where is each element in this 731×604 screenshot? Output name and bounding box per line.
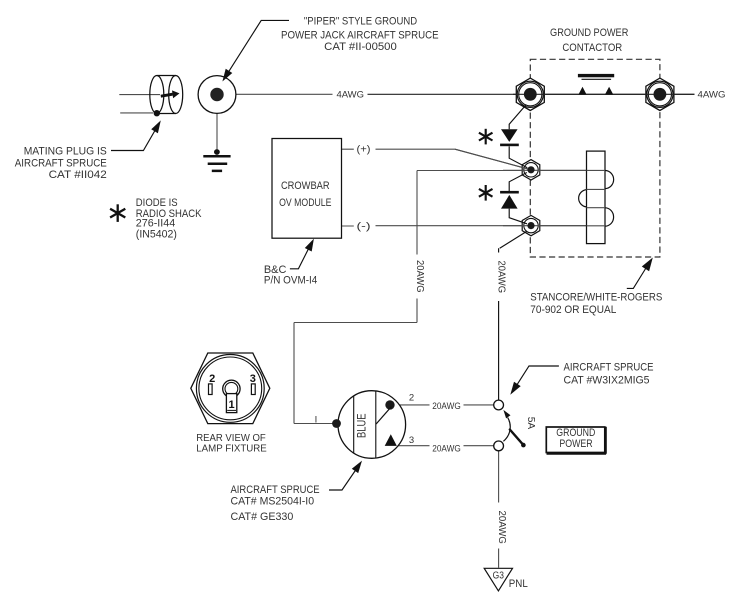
svg-text:CAT# GE330: CAT# GE330: [231, 511, 294, 523]
svg-text:G3: G3: [493, 571, 505, 582]
svg-text:20AWG: 20AWG: [496, 261, 507, 294]
svg-text:AIRCRAFT SPRUCE: AIRCRAFT SPRUCE: [15, 158, 107, 170]
svg-text:(+): (+): [357, 145, 371, 156]
svg-text:20AWG: 20AWG: [414, 260, 425, 293]
svg-text:2: 2: [409, 392, 414, 403]
svg-text:CROWBAR: CROWBAR: [281, 180, 330, 192]
svg-text:(IN5402): (IN5402): [136, 229, 177, 241]
svg-text:AIRCRAFT SPRUCE: AIRCRAFT SPRUCE: [564, 361, 654, 373]
svg-text:PNL: PNL: [509, 578, 528, 590]
svg-text:P/N OVM-I4: P/N OVM-I4: [264, 274, 317, 286]
svg-text:REAR VIEW OF: REAR VIEW OF: [196, 433, 266, 444]
svg-text:POWER: POWER: [559, 438, 592, 450]
svg-text:5A: 5A: [525, 417, 536, 430]
svg-text:STANCORE/WHITE-ROGERS: STANCORE/WHITE-ROGERS: [530, 291, 662, 303]
svg-text:OV MODULE: OV MODULE: [279, 197, 331, 209]
svg-text:4AWG: 4AWG: [336, 90, 364, 101]
svg-text:LAMP FIXTURE: LAMP FIXTURE: [196, 444, 267, 455]
svg-text:BLUE: BLUE: [357, 413, 369, 438]
svg-text:CONTACTOR: CONTACTOR: [562, 42, 622, 54]
svg-text:AIRCRAFT SPRUCE: AIRCRAFT SPRUCE: [231, 484, 320, 496]
svg-text:GROUND: GROUND: [556, 427, 595, 439]
svg-text:"PIPER" STYLE GROUND: "PIPER" STYLE GROUND: [304, 16, 417, 28]
svg-text:70-902 OR EQUAL: 70-902 OR EQUAL: [530, 304, 616, 316]
svg-text:CAT #II042: CAT #II042: [49, 169, 107, 181]
svg-text:276-II44: 276-II44: [136, 217, 175, 229]
svg-text:20AWG: 20AWG: [432, 444, 461, 455]
svg-text:4AWG: 4AWG: [698, 90, 726, 101]
svg-text:DIODE IS: DIODE IS: [136, 197, 178, 209]
svg-text:(-): (-): [357, 222, 371, 233]
svg-text:CAT #II-00500: CAT #II-00500: [324, 41, 397, 53]
svg-text:2: 2: [209, 373, 215, 385]
svg-text:20AWG: 20AWG: [496, 510, 507, 544]
svg-text:CAT #W3IX2MIG5: CAT #W3IX2MIG5: [564, 374, 650, 386]
svg-text:POWER JACK AIRCRAFT SPRUCE: POWER JACK AIRCRAFT SPRUCE: [281, 29, 439, 41]
svg-text:GROUND POWER: GROUND POWER: [550, 27, 628, 39]
svg-text:3: 3: [409, 435, 414, 446]
svg-text:I: I: [315, 414, 318, 425]
svg-text:1: 1: [229, 399, 235, 411]
svg-text:3: 3: [250, 373, 256, 385]
svg-text:20AWG: 20AWG: [432, 401, 461, 412]
svg-text:CAT# MS2504I-I0: CAT# MS2504I-I0: [231, 495, 315, 507]
svg-text:MATING PLUG IS: MATING PLUG IS: [24, 146, 107, 158]
